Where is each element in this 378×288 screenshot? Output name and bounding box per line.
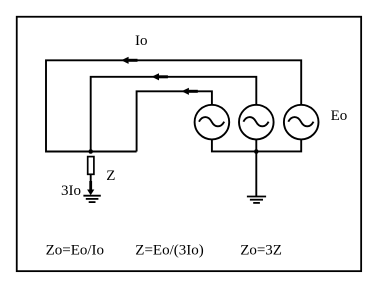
svg-text:Io: Io [135,33,148,49]
arrow down into left ground (3Io current) [87,190,94,196]
wire bottom bus under sources [212,139,301,151]
resistor Z body [88,157,94,175]
arrow on middle wire [152,73,159,80]
svg-text:Zo=3Z: Zo=3Z [240,243,282,259]
wire resistor bottom lead [90,174,92,190]
svg-text:Zo=Eo/Io: Zo=Eo/Io [46,243,104,259]
ground middle (below sources) [247,197,266,203]
node junction dot at ground bus [254,149,259,154]
wire source E2 bottom to bus [255,139,257,151]
svg-text:3Io: 3Io [61,183,81,199]
node junction dot at resistor [88,149,93,154]
svg-text:Z=Eo/(3Io): Z=Eo/(3Io) [135,243,203,259]
ac source U2 (middle) [239,105,274,140]
arrow on inner wire [182,88,189,95]
ground left (below resistor) [83,196,100,202]
ac source U1 (left) [195,105,230,140]
ac source U3 (right, Eo) [284,105,319,140]
svg-text:Z: Z [106,168,115,184]
wire bus junction down to ground [255,151,257,196]
wire inner loop (to source E1) [137,91,212,151]
arrow on top wire (Io direction) [121,57,128,64]
wire outer loop (left vertical, top horizontal, drop to source E3) [46,60,301,151]
wire middle loop (to source E2) [91,77,257,152]
svg-text:Eo: Eo [331,108,348,124]
